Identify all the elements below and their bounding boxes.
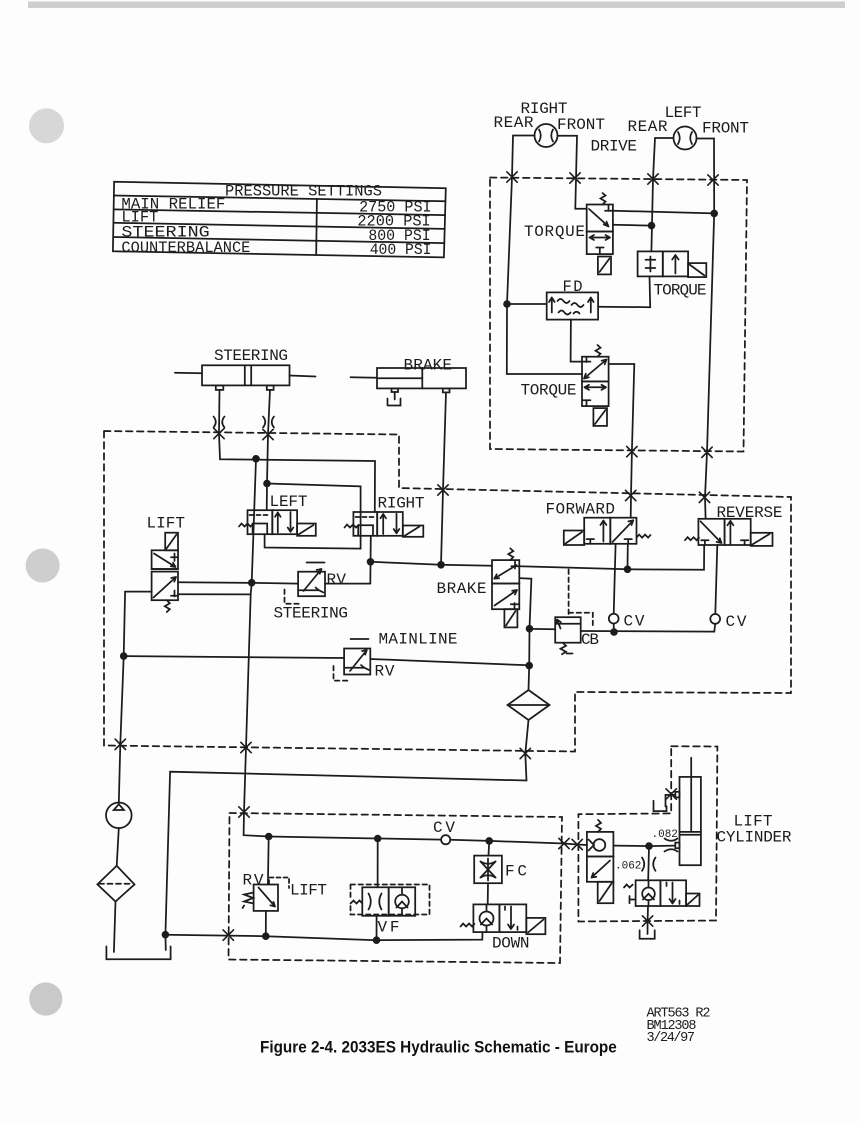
- valve TORQUE T3 (lower, vertical 2-position): [582, 345, 609, 426]
- svg-text:3/24/97: 3/24/97: [647, 1031, 696, 1046]
- wire LEFT valve loop: [265, 484, 361, 549]
- wire from junction down to steering RV line: [244, 459, 269, 837]
- page top scan bar: [28, 2, 845, 9]
- pressure settings table frame: [113, 182, 446, 258]
- valve lift down (horizontal): [624, 880, 700, 906]
- svg-text:BRAKE: BRAKE: [404, 357, 453, 375]
- wire brake valve right port down to CB: [519, 578, 531, 690]
- junction dot (251.7,582.7): [248, 579, 256, 587]
- filter (return): [508, 690, 550, 720]
- X mark (630.7,495.5): [626, 490, 636, 500]
- svg-text:CB: CB: [581, 631, 599, 649]
- svg-text:BRAKE: BRAKE: [437, 580, 487, 598]
- wire brake feed: [371, 562, 493, 566]
- valve RIGHT (2-position): [345, 512, 424, 537]
- wire reverse bottom-right port to CV: [715, 545, 717, 614]
- wire T1 right port to left-front line: [613, 211, 714, 214]
- svg-text:.062: .062: [615, 861, 641, 873]
- wire RIGHT valve bottom to RV output junction: [369, 536, 372, 584]
- wire brake cylinder down to brake wire: [441, 392, 446, 564]
- junction dot (614,632): [610, 628, 618, 636]
- lift cylinder: [675, 758, 701, 865]
- X mark (244,812): [239, 807, 249, 817]
- svg-text:RV: RV: [375, 663, 395, 681]
- orifice .082: [665, 839, 678, 852]
- svg-text:STEERING: STEERING: [274, 605, 349, 623]
- X mark wire crossing (653,179): [648, 174, 658, 184]
- wire RV lift branch: [266, 837, 269, 937]
- svg-text:LIFT: LIFT: [290, 882, 327, 900]
- wire RV steering output up to brake wire: [325, 583, 370, 585]
- svg-text:FD: FD: [563, 278, 583, 296]
- check valve CV (lift): [441, 835, 450, 844]
- valve lift lock (vertical): [587, 820, 614, 903]
- svg-text:400 PSI: 400 PSI: [370, 241, 432, 259]
- junction dot (489.2,840.9): [485, 837, 493, 845]
- punch hole middle: [26, 549, 60, 583]
- wire junction down to lower valve: [647, 846, 650, 880]
- wire steering left port down to junction: [219, 390, 375, 512]
- velocity fuse VF: [351, 885, 430, 916]
- X mark (704.5,497.3): [699, 492, 709, 502]
- wire left-motor front down to reverse valve: [697, 139, 715, 519]
- valve REVERSE: [685, 519, 773, 546]
- X mark (246,747.5): [241, 742, 251, 752]
- breather tank (cylinder): [654, 801, 667, 811]
- junction dot (123.7,656.1): [120, 652, 128, 660]
- valve FORWARD: [564, 518, 651, 545]
- svg-text:COUNTERBALANCE: COUNTERBALANCE: [121, 239, 250, 257]
- wire forward bottom-right port to brake wire: [627, 544, 629, 570]
- valve TORQUE T1 (upper, vertical 2-position): [587, 193, 613, 274]
- junction dot (627.5,569.3): [624, 566, 632, 574]
- wire CV outputs to CB output line: [581, 624, 716, 633]
- steering cylinder: [175, 365, 316, 390]
- valve DOWN: [461, 904, 546, 934]
- X mark (268,434.5): [263, 429, 273, 439]
- wire into LIFT valve left port: [125, 591, 152, 593]
- svg-text:RV: RV: [243, 872, 264, 890]
- X mark wire crossing (575,178): [570, 173, 580, 183]
- wire FD bottom to torque valve T3 top port: [571, 320, 582, 362]
- wire FC branch: [488, 841, 490, 905]
- relief valve RV mainline: [334, 639, 371, 681]
- wire to cylinder piston-side port: [613, 845, 675, 848]
- wire pump to filter: [117, 828, 119, 866]
- wire left-motor rear down to torque valve T2: [651, 138, 673, 251]
- junction dot (441,564.8): [437, 561, 445, 569]
- svg-text:CV: CV: [624, 613, 645, 631]
- wire cylinder rod-side port to breather: [666, 795, 676, 807]
- wire left line into FD: [507, 303, 547, 305]
- lift circuit dashed enclosure: [229, 813, 563, 963]
- wire LIFT valve right ports: [178, 582, 252, 594]
- punch hole bottom: [29, 982, 62, 1015]
- junction dot (370.5,561.8): [367, 558, 375, 566]
- svg-text:VF: VF: [378, 919, 400, 937]
- wire LIFT valve down to mainline and pump: [119, 592, 125, 803]
- motor RIGHT: [535, 124, 558, 147]
- tank (reservoir): [106, 946, 170, 959]
- svg-text:LEFT: LEFT: [270, 493, 308, 511]
- X mark (577.2,844.5): [572, 839, 582, 849]
- svg-text:DOWN: DOWN: [492, 935, 530, 953]
- wire T1 lower right port to rear line: [613, 224, 652, 227]
- X mark (671.2,794): [666, 789, 676, 799]
- X mark (525.3,753.5): [520, 748, 530, 758]
- wire right-motor rear to torque valve T3 line: [507, 136, 582, 375]
- pump: [106, 803, 132, 829]
- X mark wire crossing (707,452.3): [702, 447, 712, 457]
- wire filter to tank: [114, 902, 116, 953]
- wire forward bottom-left port to CV: [614, 544, 616, 614]
- svg-text:DRIVE: DRIVE: [591, 138, 638, 156]
- svg-text:RV: RV: [327, 571, 347, 589]
- wire brake valve to reverse valve: [519, 545, 704, 570]
- punch hole top: [29, 108, 64, 143]
- junction dot (649,846.1): [645, 842, 653, 850]
- svg-text:TORQUE: TORQUE: [524, 223, 585, 241]
- wire filter to tank return: [165, 720, 528, 950]
- coupling on steering left line: [214, 417, 225, 428]
- X mark (120.3,744.3): [115, 739, 125, 749]
- X mark (564,843.5): [559, 838, 569, 848]
- check valve CV (forward): [609, 614, 619, 624]
- junction dot (714,213): [710, 210, 718, 218]
- valve LIFT (vertical 2-position): [152, 533, 178, 612]
- lift cylinder block dashed enclosure: [578, 746, 717, 921]
- svg-text:FRONT: FRONT: [702, 120, 749, 138]
- X mark wire crossing (713,180): [708, 175, 718, 185]
- tank return line across box: [165, 932, 482, 940]
- svg-text:FRONT: FRONT: [557, 116, 605, 134]
- valve TORQUE T2 (middle, horizontal 2-position): [638, 251, 707, 277]
- svg-text:FORWARD: FORWARD: [546, 501, 616, 519]
- wire lift feed line across box: [269, 837, 587, 846]
- svg-text:LIFT: LIFT: [147, 515, 186, 533]
- wire T2 bottom port to FD: [598, 276, 650, 307]
- svg-text:LEFT: LEFT: [665, 104, 702, 122]
- wire steering right port down to LEFT valve: [267, 390, 270, 510]
- svg-text:STEERING: STEERING: [214, 347, 288, 365]
- svg-text:Figure 2-4. 2033ES Hydraulic: Figure 2-4. 2033ES Hydraulic Schematic -…: [260, 1038, 617, 1057]
- check valve CV (reverse): [710, 614, 720, 624]
- junction dot (651.5,225.6): [648, 222, 656, 230]
- X mark (443,490): [438, 485, 448, 495]
- svg-text:FC: FC: [505, 863, 527, 881]
- svg-text:RIGHT: RIGHT: [378, 495, 425, 513]
- valve LEFT (2-position): [239, 510, 316, 536]
- X mark wire crossing (512,177): [507, 172, 517, 182]
- junction dot (507,304): [503, 300, 511, 308]
- svg-text:TORQUE: TORQUE: [521, 382, 577, 400]
- relief valve RV (lift): [243, 878, 289, 911]
- junction dot (265.8,936.2): [262, 932, 270, 940]
- wire to CB: [530, 628, 556, 630]
- junction dot (268.7,836.5): [265, 833, 273, 841]
- flow divider FD: [547, 292, 598, 319]
- orifice .062: [642, 858, 656, 871]
- junction dot (377.7,838.5): [374, 835, 382, 843]
- coupling on steering right line: [263, 417, 274, 428]
- drive circuit dashed enclosure: [490, 178, 747, 452]
- valve BRAKE (vertical 2-position): [492, 548, 519, 627]
- filter (suction): [97, 866, 134, 902]
- counterbalance valve CB: [555, 570, 593, 655]
- motor LEFT: [674, 127, 697, 150]
- wire to steering RV: [252, 582, 298, 585]
- junction dot (529.2,665.6): [525, 662, 533, 670]
- wire T3 right port down to forward valve: [609, 364, 635, 518]
- X mark (228.3,935.1): [223, 930, 233, 940]
- wire right-motor front to torque valve T1: [558, 136, 587, 209]
- wire VF branch: [377, 839, 378, 941]
- svg-text:CV: CV: [726, 613, 747, 631]
- flow control FC: [474, 856, 502, 884]
- svg-text:REAR: REAR: [628, 118, 668, 136]
- relief valve RV steering: [285, 563, 326, 604]
- svg-text:TORQUE: TORQUE: [654, 282, 707, 300]
- brake cylinder: [351, 368, 467, 406]
- junction dot (529.5,628.7): [526, 625, 534, 633]
- X mark wire crossing (631.9,451.6): [627, 446, 637, 456]
- svg-text:MAINLINE: MAINLINE: [379, 631, 458, 649]
- svg-text:CV: CV: [433, 819, 455, 837]
- svg-text:CYLINDER: CYLINDER: [717, 829, 792, 847]
- wire lower valve to tank: [647, 906, 650, 934]
- tank (lift block): [640, 930, 655, 939]
- wire mainline: [124, 656, 530, 665]
- svg-text:REAR: REAR: [494, 114, 534, 132]
- junction dot (376.5,940.2): [373, 936, 381, 944]
- junction dot (165.4,934.7): [162, 931, 170, 939]
- X mark (647.6,921): [642, 916, 652, 926]
- X mark (219,433.5): [214, 428, 224, 438]
- junction dot (256,458.8): [252, 455, 260, 463]
- junction dot (267,483.5): [263, 480, 271, 488]
